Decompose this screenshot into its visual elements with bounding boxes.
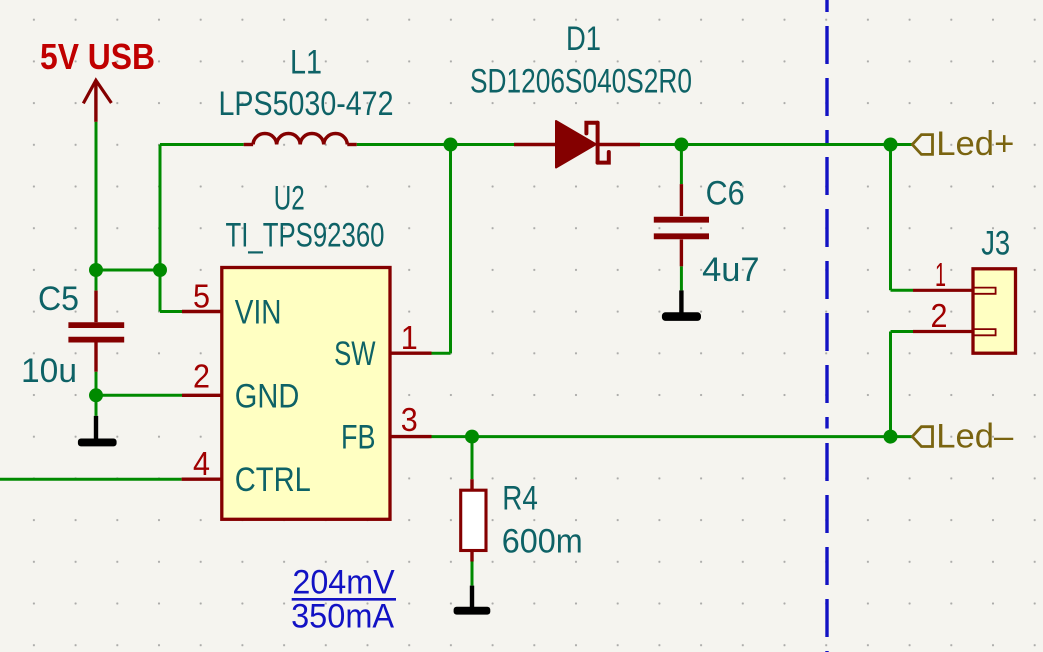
svg-text:5V USB: 5V USB: [40, 36, 155, 77]
svg-text:LPS5030-472: LPS5030-472: [219, 85, 394, 123]
svg-text:204mV: 204mV: [292, 564, 395, 602]
svg-text:350mA: 350mA: [291, 597, 394, 635]
svg-text:U2: U2: [274, 179, 305, 217]
svg-text:FB: FB: [341, 419, 376, 457]
svg-text:600m: 600m: [502, 522, 583, 560]
svg-text:3: 3: [401, 401, 418, 438]
svg-text:GND: GND: [235, 377, 299, 415]
svg-text:Led–: Led–: [936, 417, 1013, 455]
svg-text:R4: R4: [502, 479, 538, 517]
svg-text:4u7: 4u7: [702, 251, 760, 289]
svg-text:4: 4: [193, 445, 210, 482]
svg-text:L1: L1: [290, 44, 322, 82]
svg-text:Led+: Led+: [936, 125, 1014, 163]
svg-text:TI_TPS92360: TI_TPS92360: [226, 217, 385, 255]
svg-text:CTRL: CTRL: [235, 461, 311, 499]
svg-text:SD1206S040S2R0: SD1206S040S2R0: [470, 62, 692, 100]
svg-text:C6: C6: [706, 175, 745, 213]
svg-text:1: 1: [401, 319, 418, 356]
svg-text:1: 1: [935, 256, 946, 293]
svg-text:D1: D1: [566, 20, 601, 58]
svg-text:J3: J3: [981, 225, 1010, 263]
svg-text:10u: 10u: [21, 352, 77, 390]
svg-text:5: 5: [193, 278, 210, 315]
svg-text:2: 2: [193, 358, 210, 395]
svg-text:2: 2: [931, 297, 948, 334]
svg-text:C5: C5: [38, 280, 79, 318]
svg-text:SW: SW: [334, 335, 375, 373]
svg-text:VIN: VIN: [235, 294, 282, 332]
